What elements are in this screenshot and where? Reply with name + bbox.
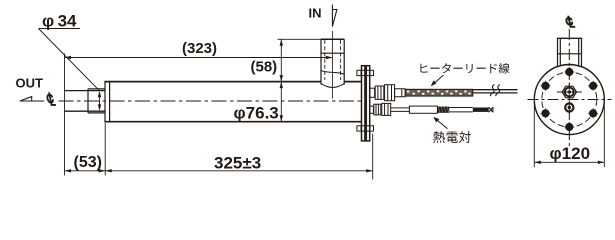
svg-text:(53): (53) xyxy=(74,154,102,171)
dimension phi76.3 arrowheads xyxy=(280,82,283,122)
dimension phi120 arrowheads xyxy=(534,161,604,164)
heater braid speckle texture xyxy=(407,90,471,94)
extension line left end (x=64.5) xyxy=(64,54,66,176)
thermocouple gland nut 1 xyxy=(374,104,381,115)
main cylinder body phi76.3 xyxy=(104,82,361,122)
end view vertical centerline xyxy=(568,29,570,149)
OUT tube coupler xyxy=(88,89,105,113)
heater braid sheath xyxy=(405,89,473,96)
thermocouple dark segment B xyxy=(473,108,489,112)
dimension (323) arrowheads xyxy=(65,56,333,59)
label heater-lead-wire text xyxy=(420,63,509,74)
svg-text:φ 34: φ 34 xyxy=(42,12,77,31)
svg-text:(323): (323) xyxy=(182,40,217,57)
svg-text:(58): (58) xyxy=(251,59,278,76)
end view horizontal centerline xyxy=(528,99,612,101)
svg-text:φ120: φ120 xyxy=(550,144,591,163)
bolt top xyxy=(564,67,574,77)
bolt upper-right xyxy=(588,81,598,91)
bolt lower-right xyxy=(588,108,598,118)
end view bolt circle (dashed) xyxy=(542,72,597,127)
dimension (58) xyxy=(251,39,282,81)
thermocouple gland nut 2 xyxy=(382,103,391,115)
end view IN pipe top view xyxy=(557,38,582,67)
end view heater gland fitting xyxy=(557,83,582,102)
thermocouple sheath thin section xyxy=(449,108,473,112)
cylinder end ring xyxy=(105,81,110,122)
leader arrowhead thermocouple xyxy=(433,117,439,123)
IN pipe saddle joint curves xyxy=(321,70,344,87)
heater gland collar xyxy=(370,88,375,97)
OUT tube xyxy=(65,91,106,112)
leader line heater-lead-wire xyxy=(432,75,444,85)
leader arrowhead heater-lead-wire xyxy=(431,80,437,86)
dimension phi34 label xyxy=(39,12,100,91)
IN pipe body xyxy=(321,39,344,87)
bolt bottom xyxy=(564,122,574,132)
flange plate 1 xyxy=(362,66,365,141)
wire break marks xyxy=(490,85,499,97)
flange plate 2 (cover) xyxy=(366,66,369,141)
dimension 325±3 arrowheads xyxy=(105,169,373,172)
thermocouple tip xyxy=(489,107,493,112)
wire main centerline front view xyxy=(59,100,363,102)
thermocouple dark segment A xyxy=(437,107,449,113)
IN pipe centerline xyxy=(331,31,333,99)
svg-text:OUT: OUT xyxy=(16,76,44,91)
thermocouple stem rod xyxy=(391,108,410,112)
heater lead wires xyxy=(473,90,518,93)
heater gland taper xyxy=(395,89,406,97)
svg-text:325±3: 325±3 xyxy=(214,154,261,173)
dimension (53) xyxy=(65,154,106,171)
flange bolt top xyxy=(357,70,374,75)
dimension 325±3 xyxy=(105,154,373,173)
dimension (53) arrowheads xyxy=(65,169,106,172)
svg-text:φ76.3: φ76.3 xyxy=(234,103,279,122)
end view flange outer circle xyxy=(534,65,604,135)
dimension (58) arrowheads xyxy=(280,39,283,81)
bolt lower-left xyxy=(541,108,551,118)
dimension (58) extension line xyxy=(278,38,322,40)
centerline symbol end-view xyxy=(566,16,575,27)
dimension phi76.3 xyxy=(234,82,282,123)
heater gland nut 2 xyxy=(385,85,395,101)
extension line flange right face xyxy=(372,134,374,180)
dimension phi34 arrows xyxy=(98,91,101,111)
heater gland nut 1 xyxy=(375,86,384,99)
end view thermocouple fitting xyxy=(565,102,573,115)
dimension (323) xyxy=(65,40,333,58)
bolt upper-left xyxy=(541,81,551,91)
dimension phi120 xyxy=(534,144,604,163)
IN pipe hidden bore lines xyxy=(325,40,341,80)
svg-text:IN: IN xyxy=(309,6,322,21)
extension line cylinder left face xyxy=(104,123,106,176)
flow arrow IN xyxy=(332,5,337,27)
flow arrow OUT xyxy=(20,97,44,101)
centerline symbol OUT xyxy=(47,93,56,106)
leader line thermocouple xyxy=(435,118,448,129)
dimension phi120 extension lines xyxy=(534,103,604,167)
thermocouple gland collar xyxy=(370,106,374,113)
flange bolt bottom xyxy=(357,126,374,131)
label thermocouple text xyxy=(433,131,471,143)
thermocouple sleeve xyxy=(409,106,437,113)
